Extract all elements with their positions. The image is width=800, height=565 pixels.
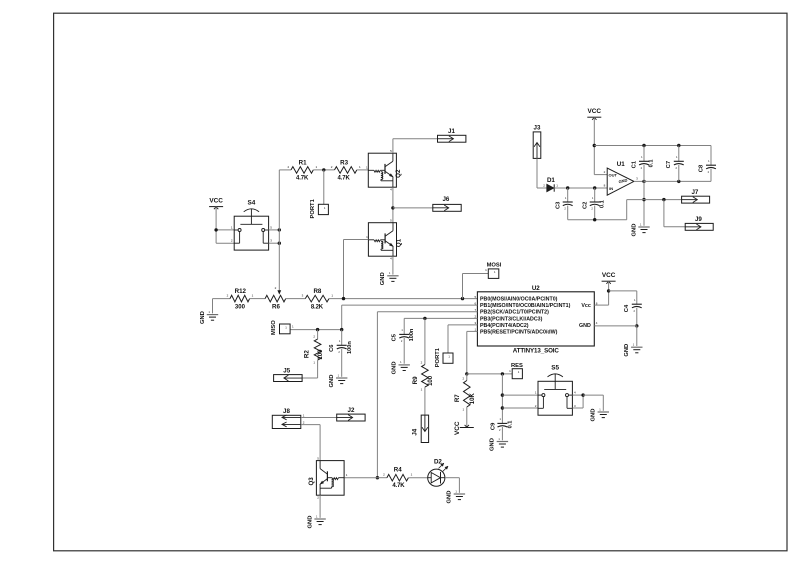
power symbol VCC (R7 pullup) [454, 421, 474, 435]
ground at C4 [624, 343, 642, 357]
capacitor C7 [666, 146, 684, 182]
svg-text:R3: R3 [340, 160, 348, 167]
potentiometer R6 [265, 286, 286, 311]
wire U2 PB5 to RES flag, R7, S5 [465, 331, 512, 375]
ground at C9 [490, 437, 508, 451]
svg-text:D1: D1 [547, 177, 555, 184]
wire R8 to U2 PB0 (pin 5 net) [329, 297, 477, 300]
wire U2 PB4 to PORT1 [448, 325, 477, 353]
wire C3,C2 bottoms to ground net [568, 200, 644, 222]
svg-text:J4: J4 [411, 428, 418, 435]
svg-text:GND: GND [307, 516, 313, 529]
pushbutton switch S4 [231, 199, 272, 250]
svg-text:100: 100 [428, 375, 434, 386]
svg-text:ATTINY13_SOIC: ATTINY13_SOIC [513, 348, 560, 355]
svg-text:PB5(RESET/PCINT5/ADC0/dW): PB5(RESET/PCINT5/ADC0/dW) [480, 329, 558, 335]
wire J8 pin1 to J2 [301, 417, 337, 419]
svg-text:PB2(SCK/ADC1/T0/PCINT2): PB2(SCK/ADC1/T0/PCINT2) [480, 310, 549, 316]
svg-text:C9: C9 [490, 422, 496, 430]
svg-text:J8: J8 [283, 408, 290, 415]
wire J8 pin2 to Q3 collector [301, 425, 320, 461]
wire Q2 emitter to J6 and Q1 collector [391, 187, 433, 223]
svg-text:RES: RES [511, 363, 523, 369]
svg-text:GND: GND [579, 323, 591, 329]
resistor R4 4.7K [383, 467, 412, 490]
ground at C5 [392, 360, 410, 374]
capacitor C1 0.1 [632, 146, 655, 182]
svg-text:PORT1: PORT1 [435, 347, 441, 367]
ground at D2 [447, 489, 465, 503]
svg-text:C8: C8 [699, 164, 705, 172]
svg-text:D2: D2 [434, 459, 442, 466]
wire R9 to J4 [424, 387, 426, 415]
svg-text:GND: GND [329, 375, 335, 388]
wire R1-R3 junction to PORT1 [313, 168, 334, 204]
capacitor C9 0.1 [490, 417, 513, 432]
ground at U1 [631, 222, 649, 236]
svg-text:GND: GND [392, 361, 398, 374]
svg-text:PB3(PCINT3/CLKI/ADC3): PB3(PCINT3/CLKI/ADC3) [480, 316, 543, 322]
wire gnd to R12 [213, 298, 231, 300]
wire VCC to U2 pin8 and C4 [594, 281, 637, 305]
resistor R9 100 [412, 318, 434, 391]
svg-text:J1: J1 [448, 128, 455, 135]
svg-text:VCC: VCC [602, 272, 616, 279]
port flag PORT1 (base drive) [310, 198, 328, 218]
svg-text:OUT: OUT [609, 173, 618, 178]
capacitor C3 [555, 188, 572, 220]
port flag PORT1 (sense) [435, 347, 453, 367]
svg-text:Vcc: Vcc [581, 303, 590, 309]
svg-text:GND: GND [200, 311, 206, 324]
wire bus left to ground [212, 299, 214, 314]
svg-text:8.2K: 8.2K [311, 305, 324, 311]
svg-text:R7: R7 [454, 394, 461, 402]
wire S5 to ground [572, 393, 603, 410]
wire R6 to R8 [286, 298, 306, 300]
capacitor C8 [699, 146, 717, 182]
IC U2 ATTINY13_SOIC [475, 285, 598, 355]
wire U2 PB1 to MISO / R2 / C6 [290, 305, 477, 331]
svg-text:R12: R12 [235, 288, 247, 295]
ground at C6 [329, 373, 347, 387]
svg-text:VCC: VCC [209, 197, 223, 204]
svg-text:S5: S5 [551, 364, 559, 371]
connector J2 [337, 407, 365, 421]
svg-text:R2: R2 [304, 350, 311, 358]
wire U2 PB3 to C5 and R9 [404, 317, 477, 335]
svg-text:C1: C1 [632, 160, 638, 168]
LED D2 [428, 459, 448, 487]
svg-text:C6: C6 [329, 344, 335, 352]
wire Q3 emitter to ground [319, 495, 321, 518]
wire R7 to VCC [466, 407, 468, 428]
wire Q1 input from R8 node [344, 240, 369, 299]
svg-text:J5: J5 [283, 368, 290, 375]
ground under Q3 [307, 514, 325, 528]
port flag MOSI [485, 263, 502, 279]
resistor R8 8.2K [302, 288, 334, 311]
svg-text:IN: IN [609, 186, 613, 191]
port flag RES [509, 363, 523, 379]
port flag MISO [271, 320, 294, 335]
svg-text:GND: GND [447, 491, 453, 504]
svg-text:U1: U1 [617, 161, 625, 168]
svg-text:C5: C5 [392, 333, 398, 341]
svg-text:GND: GND [591, 409, 597, 422]
svg-text:10K: 10K [470, 393, 476, 405]
connector J5 [274, 368, 303, 382]
svg-text:4.7K: 4.7K [296, 176, 309, 182]
svg-text:R6: R6 [272, 304, 280, 311]
svg-text:C4: C4 [624, 304, 630, 312]
capacitor C4 [624, 298, 642, 313]
svg-text:U2: U2 [532, 285, 540, 292]
wire R3 to Q2 input [357, 169, 369, 171]
svg-text:C7: C7 [666, 161, 672, 168]
svg-text:GND: GND [631, 224, 637, 237]
resistor R12 300 [227, 288, 254, 311]
resistor R7 10K [454, 374, 476, 412]
connector J4 [411, 415, 428, 442]
wire Q2 collector to J1 [393, 139, 438, 154]
svg-text:0.1: 0.1 [649, 160, 655, 168]
svg-text:300: 300 [235, 305, 246, 311]
wire ground net to J7 and J9 [644, 198, 685, 227]
svg-text:J2: J2 [348, 407, 355, 414]
connector J6 [433, 196, 461, 211]
pushbutton switch S5 [535, 364, 576, 415]
svg-text:C2: C2 [582, 202, 588, 209]
svg-text:100n: 100n [409, 328, 415, 341]
connector J9 [685, 216, 713, 230]
wire MOSI flag to PB0 [463, 274, 489, 299]
svg-text:J9: J9 [695, 216, 702, 223]
diode D1 [543, 177, 558, 192]
svg-text:0.1: 0.1 [507, 421, 513, 429]
ground at S5 [591, 407, 609, 421]
svg-text:MISO: MISO [271, 320, 277, 335]
svg-text:4.7K: 4.7K [392, 483, 405, 489]
svg-text:J3: J3 [534, 124, 541, 131]
svg-text:MOSI: MOSI [487, 263, 502, 269]
svg-text:4.7K: 4.7K [338, 176, 351, 182]
svg-text:PORT1: PORT1 [310, 198, 316, 218]
wire VCC to S4 pins 1,2 [214, 207, 234, 244]
resistor R2 100 [304, 330, 324, 365]
svg-text:R9: R9 [412, 376, 419, 384]
power symbol VCC (regulator output) [587, 108, 601, 120]
connector J7 [682, 189, 710, 203]
digital transistor Q2 [366, 149, 402, 192]
svg-text:PB4(PCINT4/ADC2): PB4(PCINT4/ADC2) [480, 323, 529, 329]
capacitor C5 100n [392, 328, 415, 343]
wire VCC rail to U1 OUT and filter caps [593, 117, 711, 174]
wire R12 to R6 [250, 298, 266, 300]
wire R2 to J5 [302, 360, 318, 378]
svg-text:GND: GND [380, 272, 386, 285]
digital transistor Q3 (mirrored) [308, 456, 348, 499]
svg-text:100: 100 [318, 349, 324, 360]
svg-text:0.1: 0.1 [599, 200, 605, 208]
voltage regulator U1 [604, 161, 639, 195]
wire C6 to ground [341, 349, 343, 377]
wire U2 PB2 to Q3 input and R4 [344, 312, 477, 480]
capacitor C2 0.1 [582, 188, 605, 220]
svg-text:VCC: VCC [454, 421, 461, 435]
svg-text:R4: R4 [394, 467, 402, 474]
wire reset net to S5 pins and C9 [501, 374, 538, 424]
power symbol VCC (S4 supply) [209, 197, 223, 209]
svg-text:Q1: Q1 [395, 238, 402, 247]
resistor R1 4.7K [287, 160, 317, 182]
wire U1 GND rail to caps bottom and ground [634, 180, 711, 226]
ground at R12 [200, 310, 218, 324]
svg-text:VCC: VCC [588, 108, 602, 115]
power symbol VCC (U2 supply) [602, 272, 616, 284]
wire D1 cathode to U1 IN, C3, C2 [554, 186, 607, 189]
capacitor C6 100n [329, 330, 353, 354]
wire C9 to ground [501, 427, 503, 440]
wire U2 GND pin4 to C4 and ground [594, 308, 638, 346]
wire C5 to ground [403, 338, 405, 364]
connector J1 [438, 128, 466, 142]
wire J3 to D1 anode [537, 158, 547, 188]
svg-text:C3: C3 [555, 201, 561, 209]
ground under Q1 [380, 271, 398, 285]
wire Q1 emitter to ground [392, 256, 394, 274]
svg-text:S4: S4 [247, 199, 255, 206]
connector J8 [272, 408, 305, 428]
svg-text:Q2: Q2 [395, 169, 402, 178]
svg-text:R1: R1 [299, 160, 307, 167]
svg-text:J6: J6 [442, 196, 449, 203]
connector J3 [533, 124, 541, 158]
svg-text:PB0(MOSI/AIN0/OC0A/PCINT0): PB0(MOSI/AIN0/OC0A/PCINT0) [480, 297, 558, 303]
svg-text:GND: GND [624, 344, 630, 357]
resistor R3 4.7K [331, 160, 361, 182]
svg-text:R8: R8 [313, 288, 321, 295]
svg-text:J7: J7 [691, 189, 698, 196]
svg-text:Q3: Q3 [308, 477, 315, 486]
wire D2 to ground [445, 478, 460, 493]
wire S4 output bus to R1 and R6 wiper [269, 170, 291, 295]
svg-text:PB1(MISO/INT0/OC0B/AIN1/PCINT1: PB1(MISO/INT0/OC0B/AIN1/PCINT1) [480, 303, 571, 309]
digital transistor Q1 [366, 219, 402, 261]
svg-text:100n: 100n [347, 341, 353, 354]
wire R4 to D2 [408, 477, 427, 479]
svg-text:GND: GND [490, 438, 496, 451]
